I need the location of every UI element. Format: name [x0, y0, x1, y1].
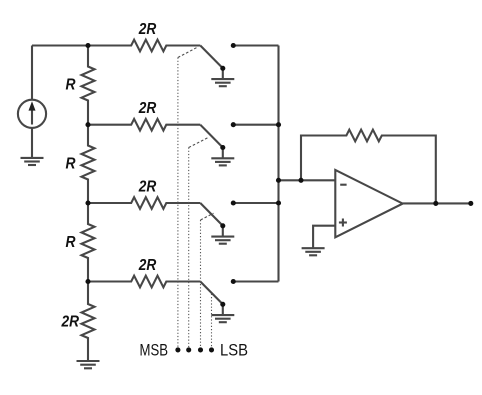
- svg-text:LSB: LSB: [220, 340, 248, 359]
- svg-text:2R: 2R: [138, 100, 157, 117]
- svg-text:R: R: [66, 155, 77, 172]
- svg-text:2R: 2R: [138, 21, 157, 38]
- svg-text:2R: 2R: [138, 178, 157, 195]
- svg-text:2R: 2R: [138, 257, 157, 274]
- svg-text:2R: 2R: [61, 313, 80, 330]
- svg-text:R: R: [66, 76, 77, 93]
- svg-text:MSB: MSB: [140, 340, 169, 359]
- svg-text:R: R: [66, 234, 77, 251]
